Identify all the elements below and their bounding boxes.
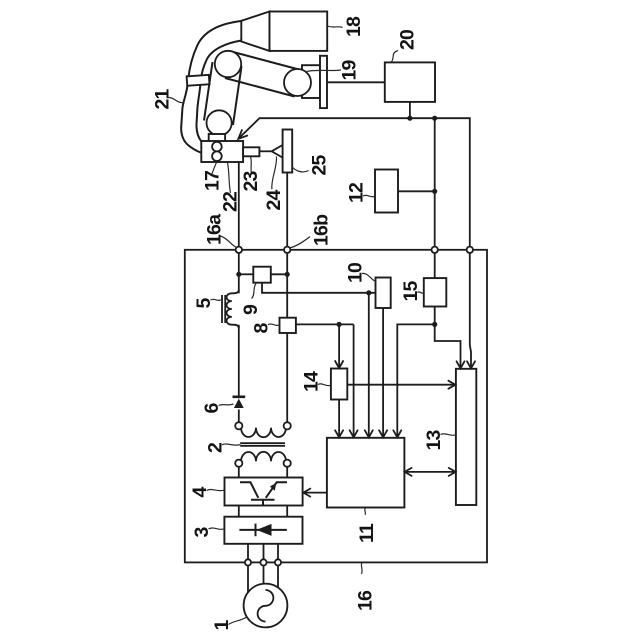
svg-text:16b: 16b <box>311 214 333 246</box>
wire feeder 18 body <box>270 12 328 51</box>
diode 6 <box>233 397 246 408</box>
junction dot at detector 12 connection <box>432 189 437 194</box>
svg-text:6: 6 <box>201 403 223 414</box>
svg-text:14: 14 <box>301 371 323 392</box>
label 3 <box>191 527 224 538</box>
contact tip 23 <box>243 147 259 156</box>
svg-text:23: 23 <box>240 170 262 191</box>
rectifier 3 box <box>224 517 302 544</box>
wire: filter 10 output down to controller 11 <box>382 308 384 437</box>
arrowhead into controller 11 from 8 line <box>350 430 358 437</box>
AC source 1 <box>244 584 288 628</box>
wire: rectifier 3 input line 1 to AC source <box>247 544 249 593</box>
robot upper arm link edges <box>225 52 301 97</box>
wire: setting unit 14 output down to controller 11 <box>338 400 340 438</box>
transformer 2 primary right terminal <box>284 460 291 467</box>
wire: left bus inside box, node 16a to coil 5 <box>238 250 240 293</box>
svg-text:1: 1 <box>211 620 233 631</box>
wire: detector 8 output to the right <box>296 323 354 325</box>
svg-text:18: 18 <box>343 16 365 37</box>
setting unit 14 box <box>331 369 347 400</box>
label 15 <box>400 280 424 301</box>
label 4 <box>189 487 224 498</box>
wire: diode 6 to transformer secondary left terminal <box>238 409 240 422</box>
transformer 2 core <box>240 442 285 444</box>
label 8 <box>251 323 280 334</box>
svg-text:25: 25 <box>309 154 331 175</box>
wire: right bus inside box, node 16b to detector 8 <box>286 250 288 318</box>
label 19 <box>307 59 361 80</box>
voltage detector 12 box <box>375 170 398 213</box>
robot wrist bracket 19 <box>302 65 320 98</box>
transformer 2 primary winding <box>241 452 286 462</box>
wire: voltage detector 12 to harness branch <box>398 190 435 192</box>
svg-text:12: 12 <box>346 182 368 203</box>
label 14 <box>301 371 331 392</box>
feed roller 17 lower <box>212 151 222 161</box>
svg-text:5: 5 <box>193 298 215 309</box>
node D on box top edge <box>467 247 473 253</box>
junction dot at right bus / detector 9 <box>285 272 290 277</box>
transformer 2 secondary right terminal <box>284 422 291 429</box>
label 16 <box>355 563 377 611</box>
big arrowhead pointing at torch <box>238 130 247 139</box>
label 11 <box>356 508 378 543</box>
arc 24 cone <box>272 145 283 157</box>
transformer 2 secondary winding <box>241 427 286 437</box>
arrowhead into controller 11 from 10 <box>379 430 387 437</box>
voltage detector 9 box <box>253 267 270 283</box>
wire: voltage detector 9 to right bus <box>271 273 287 275</box>
conduit cable 21 outer edge <box>181 21 241 153</box>
label 6 <box>201 403 234 414</box>
svg-text:8: 8 <box>251 323 273 334</box>
wire: output lead from torch 22 down to node 16a <box>238 162 240 250</box>
label 2 <box>205 442 241 453</box>
wire: harness from torch arrow to right corner <box>239 118 470 250</box>
label 13 <box>423 429 456 450</box>
wire: rectifier 3 input line 3 to AC source <box>277 544 279 589</box>
robot mount flange 19 <box>320 56 327 108</box>
junction dot on 8-output line <box>337 322 342 327</box>
label 18 <box>328 16 365 37</box>
wire: detector 8 to transformer secondary right terminal <box>286 333 288 422</box>
wire: transformer primary right down to inverter 4 <box>286 467 288 478</box>
svg-text:20: 20 <box>397 29 419 50</box>
wire: rectifier 3 input line 2 to AC source <box>263 544 265 585</box>
label 12 <box>346 182 375 203</box>
input terminal 2 on box bottom edge <box>260 559 266 565</box>
torch body 22 <box>201 141 243 162</box>
svg-text:24: 24 <box>263 189 285 210</box>
transistor Q inside inverter 4 <box>240 482 287 505</box>
junction dot harness below 20 <box>407 116 412 121</box>
svg-text:4: 4 <box>189 487 211 498</box>
label 22 <box>220 163 242 213</box>
current detector 8 box <box>280 318 296 333</box>
svg-text:9: 9 <box>240 304 262 315</box>
arrowhead into controller 11 from 15 line <box>393 430 401 437</box>
wire: controller 11 to interface 13 (double arrow) <box>404 471 456 473</box>
arrowhead into controller 11 from 9 line <box>365 430 373 437</box>
wire: setting unit 14 to interface 13 <box>347 384 455 386</box>
robot forearm link edges <box>204 62 242 125</box>
svg-text:22: 22 <box>220 191 242 212</box>
input terminal 3 on box bottom edge <box>275 559 281 565</box>
wire: harness branch down to node C <box>434 118 436 250</box>
enclosure 16 (welding power source box) <box>185 250 487 563</box>
node 16b <box>284 247 290 253</box>
wire: branch of 8-output down to setting unit 14 <box>338 324 340 368</box>
wire: left branch to voltage detector 9 <box>239 273 254 275</box>
arrowhead into setting unit 14 <box>335 361 343 368</box>
junction dot below unit 15 <box>432 322 437 327</box>
inverter 4 box <box>225 478 303 506</box>
junction dot at left bus / detector 9 <box>236 272 241 277</box>
label 24 <box>263 157 285 211</box>
junction dot on 9-output line <box>366 290 371 295</box>
svg-text:11: 11 <box>356 523 378 543</box>
wire: inverter 4 to rectifier 3 left stub <box>238 506 240 517</box>
wire: coil 5 bottom to diode 6 <box>238 325 240 399</box>
feed roller 17 upper <box>212 142 222 152</box>
filter 10 box <box>376 278 391 309</box>
workpiece 25 <box>283 130 293 173</box>
label 1 <box>211 617 247 631</box>
conduit cable 21 inner edge <box>196 41 241 142</box>
label 16a <box>204 214 237 247</box>
svg-text:19: 19 <box>339 59 361 80</box>
node C on box top edge <box>432 247 438 253</box>
torch neck <box>209 134 225 142</box>
arrowhead into inverter 4 from controller 11 <box>303 489 310 497</box>
arrowhead into interface 13 top from node D <box>467 361 475 368</box>
label 20 <box>392 29 419 62</box>
robot controller 20 box <box>385 62 435 102</box>
wire: detector 9 output down then right to filter 10 <box>262 283 376 293</box>
wire: robot controller 20 down to harness <box>409 102 411 118</box>
wire: mount 19 flange to robot controller 20 <box>327 81 385 83</box>
label 25 <box>292 154 331 175</box>
wire: controller 11 to inverter 4 <box>303 492 327 494</box>
wire: unit 15 output down to junction <box>434 307 436 325</box>
input terminal 1 on box bottom edge <box>245 559 251 565</box>
wire: inverter 4 to rectifier 3 right stub <box>286 506 288 517</box>
arrowhead into interface 13 top from 15 line <box>457 361 465 368</box>
reactor 5 coil <box>227 290 239 328</box>
svg-text:15: 15 <box>400 280 422 301</box>
wire: transformer primary left down to inverter 4 <box>238 467 240 478</box>
wire: node C down to unit 15 <box>434 250 436 278</box>
label 23 <box>240 157 262 192</box>
diode inside rectifier 3 <box>239 524 287 537</box>
svg-text:17: 17 <box>202 171 224 191</box>
robot joint circle J1 <box>215 51 241 77</box>
wire: 8-output turned down to controller 11 <box>353 324 355 437</box>
svg-text:16a: 16a <box>204 214 226 245</box>
interface 13 box <box>456 369 476 505</box>
reactor 5 core lines <box>221 295 223 323</box>
wire stickout <box>259 150 271 152</box>
robot wrist circle J2 <box>284 69 311 96</box>
arrowhead into interface 13 left from 14 <box>448 381 455 389</box>
transformer 2 primary left terminal <box>235 460 242 467</box>
wire feeder 18 funnel <box>241 12 269 51</box>
controller 11 box <box>327 438 405 508</box>
clamp band on conduit 21 <box>187 75 210 86</box>
svg-text:21: 21 <box>152 88 174 109</box>
wire: branch from 9-output line down to controller 11 <box>368 293 370 438</box>
arrowhead into controller 11 from 14 <box>335 430 343 437</box>
unit 15 box <box>424 278 447 306</box>
node 16a <box>236 247 242 253</box>
robot joint circle J3 <box>207 110 232 135</box>
wire: 15-output left then down to controller 11 <box>397 324 434 437</box>
double arrowheads between 11 and 13 <box>405 468 412 476</box>
label 5 <box>193 298 221 309</box>
label 10 <box>345 262 375 283</box>
junction dot harness at branch C <box>432 116 437 121</box>
svg-text:13: 13 <box>423 429 445 450</box>
wire: output lead from workpiece 25 down to node 16b <box>286 173 288 250</box>
label 17 <box>202 163 224 192</box>
svg-text:2: 2 <box>205 442 227 453</box>
transformer 2 secondary left terminal <box>235 422 242 429</box>
label 9 <box>240 284 262 316</box>
label 21 <box>152 88 184 109</box>
wire: node D down into interface 13 <box>470 250 471 368</box>
svg-text:16: 16 <box>355 590 377 611</box>
label 16b <box>290 214 333 248</box>
wire: 15-output down then right into interface 13 <box>435 324 461 368</box>
svg-text:10: 10 <box>345 262 367 283</box>
svg-text:3: 3 <box>191 527 213 538</box>
